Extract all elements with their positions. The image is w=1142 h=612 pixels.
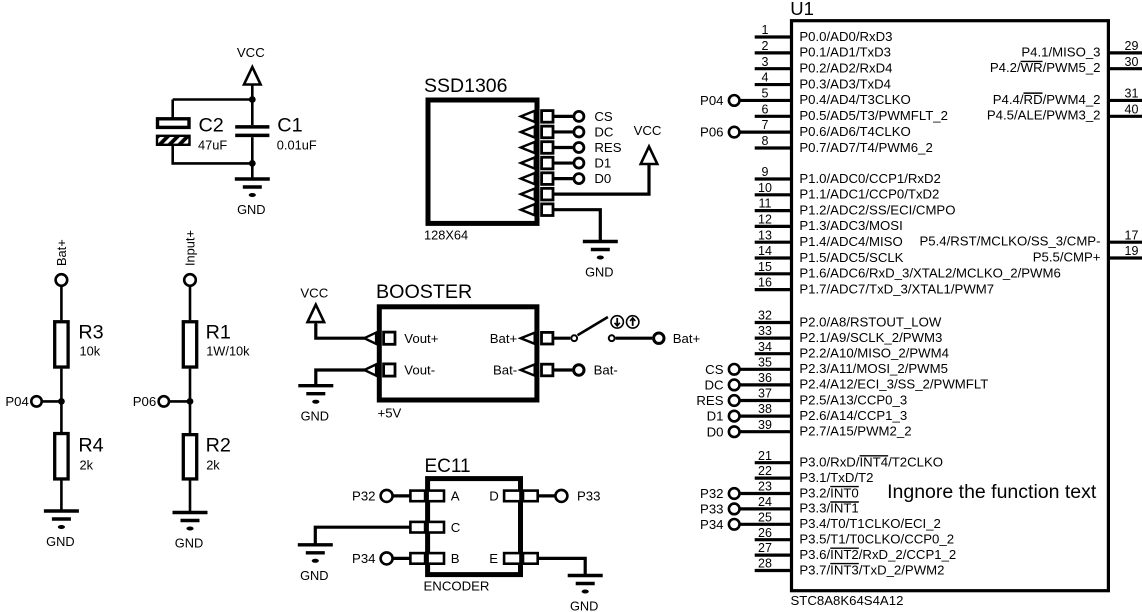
svg-text:128X64: 128X64 [424,228,468,243]
wire (encoder C to GND) [315,527,410,545]
pin 7 (U1) [700,118,911,140]
svg-text:P4.4/RD/PWM4_2: P4.4/RD/PWM4_2 [993,92,1101,107]
power flag VCC (decoupling rail) [237,45,265,100]
svg-text:2: 2 [762,39,769,53]
wire [189,369,192,434]
svg-text:P0.2/AD2/RxD4: P0.2/AD2/RxD4 [799,61,892,76]
pin 2 (U1) [755,39,891,60]
svg-text:GND: GND [301,409,329,424]
svg-text:16: 16 [758,276,772,290]
pin 39 (U1) [707,418,912,440]
svg-text:Bat-: Bat- [493,363,517,378]
svg-text:R3: R3 [78,322,103,344]
pin Bat+ (BOOSTER) [490,331,553,346]
svg-text:P1.7/ADC7/TxD_3/XTAL1/PWM7: P1.7/ADC7/TxD_3/XTAL1/PWM7 [799,281,994,296]
pin 9 (U1) [755,165,941,186]
svg-text:Bat+: Bat+ [490,331,518,346]
svg-text:C2: C2 [199,115,224,137]
svg-text:R4: R4 [78,434,103,456]
svg-text:P1.3/ADC3/MOSI: P1.3/ADC3/MOSI [799,218,902,233]
svg-text:38: 38 [758,402,772,416]
pin 35 (U1) [705,355,948,377]
ground (decoupling) [235,179,270,217]
pin 3 (U1) [755,55,893,76]
wire (VCC rail to C2) [173,98,253,101]
pin GND (SSD1306) [521,204,601,242]
svg-text:17: 17 [1125,228,1139,242]
svg-text:DC: DC [594,125,614,140]
svg-text:P3.4/T0/T1CLKO/ECI_2: P3.4/T0/T1CLKO/ECI_2 [799,516,940,531]
svg-text:24: 24 [758,495,772,509]
resistor R1 1W/10k [183,322,250,368]
pin 30 (U1) [990,55,1142,75]
svg-text:P1.0/ADC0/CCP1/RxD2: P1.0/ADC0/CCP1/RxD2 [799,171,940,186]
svg-text:P4.2/WR/PWM5_2: P4.2/WR/PWM5_2 [990,60,1101,75]
pin D0 (SSD1306) [521,171,611,186]
svg-text:P4.1/MISO_3: P4.1/MISO_3 [1021,44,1100,59]
capacitor C2 47uF (electrolytic) [157,115,227,153]
svg-text:P34: P34 [352,551,375,566]
svg-text:P4.5/ALE/PWM3_2: P4.5/ALE/PWM3_2 [987,108,1101,123]
wire [60,369,63,432]
pin E (EC11) [489,551,537,566]
svg-text:P2.1/A9/SCLK_2/PWM3: P2.1/A9/SCLK_2/PWM3 [799,330,942,345]
pin 19 (U1) [1033,244,1142,264]
pin D1 (SSD1306) [521,156,611,171]
svg-text:15: 15 [758,260,772,274]
pin 40 (U1) [987,102,1142,122]
svg-text:P2.7/A15/PWM2_2: P2.7/A15/PWM2_2 [799,424,911,439]
pin Vout+ (BOOSTER) [364,331,438,346]
svg-text:DC: DC [704,378,724,393]
svg-text:+5V: +5V [378,406,402,421]
svg-text:P1.6/ADC6/RxD_3/XTAL2/MCLKO_2/: P1.6/ADC6/RxD_3/XTAL2/MCLKO_2/PWM6 [799,266,1060,281]
junction (R1/R2 tap) [187,398,194,405]
svg-text:P1.5/ADC5/SCLK: P1.5/ADC5/SCLK [799,250,903,265]
svg-text:7: 7 [762,118,769,132]
svg-text:SSD1306: SSD1306 [424,75,507,97]
svg-text:RES: RES [696,393,723,408]
svg-text:6: 6 [762,102,769,116]
pin 12 (U1) [755,213,903,234]
resistor R3 10k [55,322,104,368]
pin VCC (SSD1306) [521,148,649,200]
wire (Vout- to GND) [316,370,366,386]
power flag VCC (BOOSTER output) [300,285,328,326]
svg-text:P0.3/AD3/TxD4: P0.3/AD3/TxD4 [799,76,891,91]
svg-text:D: D [489,489,499,504]
terminal Bat+ (divider input) [54,239,69,285]
svg-text:P0.7/AD7/T4/PWM6_2: P0.7/AD7/T4/PWM6_2 [799,140,932,155]
svg-text:P06: P06 [133,394,156,409]
pin 5 (U1) [700,87,911,109]
pin 36 (U1) [704,371,988,393]
wire (C2 bottom lead) [173,146,253,164]
svg-text:P1.1/ADC1/CCP0/TxD2: P1.1/ADC1/CCP0/TxD2 [799,187,939,202]
svg-text:Input+: Input+ [183,230,198,266]
pin 27 (U1) [755,541,957,562]
svg-text:25: 25 [758,510,772,524]
pin 6 (U1) [755,102,948,123]
pin Vout- (BOOSTER) [364,363,435,378]
module BOOSTER (+5V boost converter) [376,281,537,420]
svg-text:A: A [451,489,460,504]
svg-text:P0.6/AD6/T4CLKO: P0.6/AD6/T4CLKO [799,124,910,139]
svg-text:P33: P33 [577,489,600,504]
wire [60,481,63,512]
svg-text:D1: D1 [594,156,611,171]
pin 32 (U1) [755,309,942,330]
svg-text:R2: R2 [206,434,231,456]
svg-text:P3.3/INT1: P3.3/INT1 [799,501,858,516]
svg-text:P33: P33 [700,502,723,517]
svg-text:EC11: EC11 [425,456,471,477]
module EC11 (rotary encoder) [424,456,521,594]
svg-text:P2.4/A12/ECI_3/SS_2/PWMFLT: P2.4/A12/ECI_3/SS_2/PWMFLT [799,377,988,392]
svg-text:P2.0/A8/RSTOUT_LOW: P2.0/A8/RSTOUT_LOW [799,314,941,329]
terminal Bat- (battery) [574,363,618,378]
pin 24 (U1) [700,495,859,517]
svg-text:P3.0/RxD/INT4/T2CLKO: P3.0/RxD/INT4/T2CLKO [799,455,943,470]
terminal P34 (encoder B) [352,551,410,566]
IC U1 STC8A8K64S4A12 [790,0,1108,608]
svg-text:R1: R1 [206,322,231,344]
pin 8 (U1) [755,134,933,155]
svg-text:GND: GND [237,202,265,217]
svg-text:34: 34 [758,340,772,354]
wire (switch to Bat+ terminal) [616,337,653,340]
wire (encoder E to GND) [538,558,586,575]
note text [887,481,1097,503]
pin 26 (U1) [755,526,954,547]
svg-text:STC8A8K64S4A12: STC8A8K64S4A12 [791,593,904,608]
pin 17 (U1) [919,228,1142,248]
svg-text:26: 26 [758,526,772,540]
svg-text:D0: D0 [707,424,724,439]
wire (Vout+ to VCC) [316,324,366,338]
svg-text:B: B [451,551,460,566]
wire [60,286,63,321]
svg-text:P0.5/AD5/T3/PWMFLT_2: P0.5/AD5/T3/PWMFLT_2 [799,108,948,123]
wire (C2 top lead) [171,100,174,119]
ground (encoder E) [568,576,603,612]
svg-text:37: 37 [758,387,772,401]
pin 14 (U1) [755,244,904,265]
svg-text:P0.4/AD4/T3CLKO: P0.4/AD4/T3CLKO [799,92,910,107]
svg-text:P2.6/A14/CCP1_3: P2.6/A14/CCP1_3 [799,408,907,423]
svg-text:P3.7/INT3/TxD_2/PWM2: P3.7/INT3/TxD_2/PWM2 [799,562,944,577]
svg-text:P32: P32 [352,489,375,504]
svg-text:GND: GND [300,568,328,583]
svg-text:2k: 2k [80,457,94,472]
pin 16 (U1) [755,276,994,297]
terminal P06 [133,394,190,409]
terminal P32 (encoder A) [352,489,410,504]
svg-text:13: 13 [758,228,772,242]
pin B (EC11) [410,551,459,566]
wire (Bat- to terminal) [554,368,572,371]
pin D (EC11) [489,489,537,504]
svg-text:GND: GND [570,599,598,612]
ground (BOOSTER output) [298,386,333,424]
svg-text:P06: P06 [700,125,723,140]
ground (SSD1306) [583,242,618,280]
pin 34 (U1) [755,340,949,361]
svg-text:40: 40 [1125,102,1139,116]
pin 37 (U1) [696,387,907,409]
svg-text:19: 19 [1125,244,1139,258]
pin 21 (U1) [755,449,943,470]
junction (C1 bottom / C2 return) [249,160,256,167]
module SSD1306 (OLED 128X64) [424,75,537,243]
svg-text:35: 35 [758,355,772,369]
svg-text:Vout+: Vout+ [404,331,438,346]
svg-text:P34: P34 [700,517,723,532]
svg-text:4: 4 [762,71,769,85]
svg-text:ENCODER: ENCODER [424,579,490,594]
svg-text:31: 31 [1125,87,1139,101]
svg-text:Bat+: Bat+ [673,331,701,346]
pin 29 (U1) [1021,39,1142,59]
svg-text:29: 29 [1125,39,1139,53]
svg-text:21: 21 [758,449,772,463]
pin 31 (U1) [993,87,1142,107]
svg-text:36: 36 [758,371,772,385]
switch SW (battery) [554,316,639,341]
svg-text:CS: CS [705,362,724,377]
capacitor C1 0.01uF [235,100,317,164]
svg-text:P3.5/T1/T0CLKO/CCP0_2: P3.5/T1/T0CLKO/CCP0_2 [799,532,954,547]
pin 4 (U1) [755,71,891,92]
pin 15 (U1) [755,260,1061,281]
svg-text:P04: P04 [5,394,28,409]
svg-text:5: 5 [762,87,769,101]
svg-text:P1.2/ADC2/SS/ECI/CMPO: P1.2/ADC2/SS/ECI/CMPO [799,202,955,217]
svg-text:Bat+: Bat+ [54,239,69,266]
svg-text:2k: 2k [206,457,220,472]
pin 1 (U1) [755,23,893,44]
svg-text:10k: 10k [80,344,101,359]
svg-text:27: 27 [758,541,772,555]
pin 13 (U1) [755,228,903,249]
ground (divider B) [173,513,208,551]
resistor R4 2k [55,434,104,479]
pin Bat- (BOOSTER) [493,363,553,378]
wire (to ground) [251,163,254,179]
wire [189,481,192,513]
svg-text:Vout-: Vout- [404,363,435,378]
svg-text:23: 23 [758,480,772,494]
svg-text:12: 12 [758,213,772,227]
svg-text:U1: U1 [790,0,814,19]
svg-text:GND: GND [175,536,203,551]
svg-text:47uF: 47uF [198,138,227,153]
pin 28 (U1) [755,557,945,578]
svg-text:P3.6/INT2/RxD_2/CCP1_2: P3.6/INT2/RxD_2/CCP1_2 [799,547,956,562]
terminal P04 [5,394,61,409]
svg-text:32: 32 [758,309,772,323]
svg-text:33: 33 [758,324,772,338]
svg-text:30: 30 [1125,55,1139,69]
pin DC (SSD1306) [521,125,614,140]
svg-text:28: 28 [758,557,772,571]
svg-text:1: 1 [762,23,769,37]
ground (encoder C) [298,545,333,583]
pin 10 (U1) [755,181,940,202]
svg-text:1W/10k: 1W/10k [206,344,250,359]
pin 38 (U1) [707,402,908,424]
svg-text:P3.2/INT0: P3.2/INT0 [799,485,858,500]
svg-text:GND: GND [585,265,613,280]
svg-text:GND: GND [46,534,74,549]
svg-text:14: 14 [758,244,772,258]
svg-text:C: C [451,520,461,535]
junction (R3/R4 tap) [58,398,65,405]
svg-text:C1: C1 [277,115,302,137]
svg-text:P2.5/A13/CCP0_3: P2.5/A13/CCP0_3 [799,392,907,407]
power flag VCC (SSD1306) [634,123,662,168]
svg-text:0.01uF: 0.01uF [277,138,317,153]
svg-text:Ingnore the function text: Ingnore the function text [887,481,1097,503]
terminal P33 (encoder D) [538,489,601,504]
svg-text:9: 9 [762,165,769,179]
svg-text:RES: RES [594,140,621,155]
pin 25 (U1) [700,510,941,532]
svg-text:D1: D1 [707,409,724,424]
svg-text:3: 3 [762,55,769,69]
svg-text:P1.4/ADC4/MISO: P1.4/ADC4/MISO [799,234,902,249]
pin 23 (U1) [700,480,859,502]
svg-text:P0.0/AD0/RxD3: P0.0/AD0/RxD3 [799,29,892,44]
svg-text:VCC: VCC [300,285,328,300]
svg-text:P5.5/CMP+: P5.5/CMP+ [1033,249,1101,264]
svg-text:11: 11 [759,197,772,211]
svg-text:8: 8 [762,134,769,148]
terminal Bat+ (battery) [654,331,701,346]
junction (VCC rail / C1 top) [249,96,256,103]
resistor R2 2k [183,434,231,479]
pin 11 (U1) [755,197,956,218]
svg-text:P3.1/TxD/T2: P3.1/TxD/T2 [799,470,873,485]
pin CS (SSD1306) [521,109,613,124]
svg-text:10: 10 [758,181,772,195]
svg-text:22: 22 [758,464,772,478]
svg-text:P32: P32 [700,486,723,501]
svg-text:P5.4/RST/MCLKO/SS_3/CMP-: P5.4/RST/MCLKO/SS_3/CMP- [919,234,1100,249]
svg-text:P2.2/A10/MISO_2/PWM4: P2.2/A10/MISO_2/PWM4 [799,346,949,361]
svg-text:E: E [489,551,498,566]
svg-text:P0.1/AD1/TxD3: P0.1/AD1/TxD3 [799,45,891,60]
wire [189,286,192,321]
svg-text:D0: D0 [594,171,611,186]
pin 22 (U1) [755,464,874,485]
svg-text:P2.3/A11/MOSI_2/PWM5: P2.3/A11/MOSI_2/PWM5 [799,361,948,376]
pin 33 (U1) [755,324,943,345]
svg-text:BOOSTER: BOOSTER [376,281,472,303]
svg-text:VCC: VCC [634,123,662,138]
svg-text:P04: P04 [700,93,723,108]
pin A (EC11) [410,489,459,504]
svg-text:Bat-: Bat- [594,363,618,378]
svg-text:VCC: VCC [237,45,265,60]
ground (divider A) [44,511,79,549]
terminal Input+ (divider input) [183,230,198,286]
pin RES (SSD1306) [521,140,622,155]
svg-text:39: 39 [758,418,772,432]
svg-text:CS: CS [594,109,613,124]
pin C (EC11) [410,520,460,535]
